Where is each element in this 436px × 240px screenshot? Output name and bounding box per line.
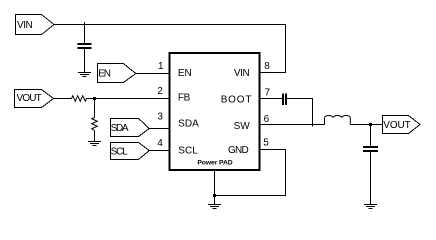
svg-text:1: 1 [158,61,164,72]
svg-text:SDA: SDA [178,119,199,130]
svg-text:EN: EN [178,68,192,79]
svg-text:3: 3 [157,111,163,122]
svg-text:2: 2 [157,86,163,97]
svg-text:VIN: VIN [17,20,33,31]
svg-text:EN: EN [98,69,110,80]
svg-text:BOOT: BOOT [221,95,253,106]
svg-text:SW: SW [234,121,251,132]
svg-text:VOUT: VOUT [17,93,42,104]
svg-text:SCL: SCL [111,147,128,158]
svg-text:SCL: SCL [178,146,198,157]
svg-text:8: 8 [264,61,270,72]
svg-text:7: 7 [265,88,271,99]
svg-text:GND: GND [228,145,249,156]
svg-text:FB: FB [178,92,191,103]
svg-text:6: 6 [264,114,270,125]
svg-text:Power PAD: Power PAD [197,159,232,166]
svg-text:VOUT: VOUT [383,120,410,131]
svg-text:SDA: SDA [111,123,129,134]
svg-text:VIN: VIN [234,68,250,79]
svg-text:5: 5 [263,138,269,149]
svg-text:4: 4 [157,138,163,149]
